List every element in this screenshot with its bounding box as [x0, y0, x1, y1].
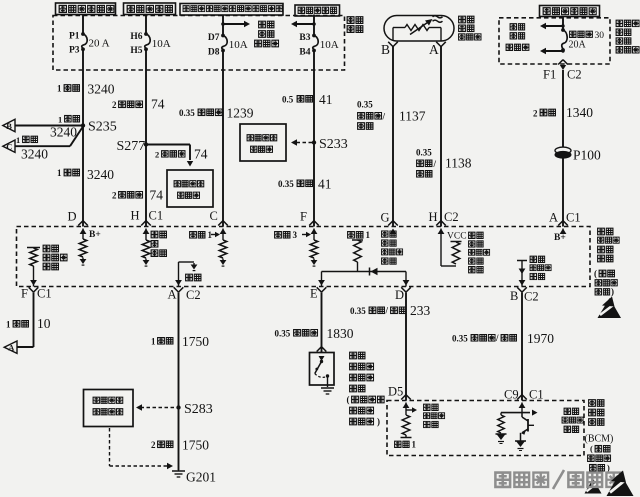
svg-text:): ) — [611, 287, 614, 297]
wire: feed 1 into fuse block — [82, 15, 84, 35]
label: parking brake indicator switch — [350, 352, 357, 359]
svg-text:): ) — [607, 463, 610, 473]
svg-text:/: / — [433, 159, 437, 169]
svg-text:): ) — [377, 417, 380, 427]
BCM internal pull resistor — [500, 413, 502, 415]
svg-text:C2: C2 — [524, 290, 539, 304]
fuse box (top) dashed enclosure — [53, 16, 345, 71]
svg-text:(: ( — [590, 444, 593, 454]
splice S233 with dashed branch — [312, 140, 316, 144]
module internal: pin G ambient light sensor input label — [390, 229, 397, 235]
svg-text:0.35: 0.35 — [275, 329, 291, 339]
label: wiring system power distribution (between fuses) — [259, 21, 266, 28]
svg-text:1970: 1970 — [527, 331, 554, 346]
svg-text:20 A: 20 A — [89, 37, 110, 49]
svg-text:H5: H5 — [130, 46, 142, 56]
wire: 0.35 orange/black 233 — [405, 293, 407, 401]
wire: feed 3 into fuse block — [222, 15, 224, 36]
svg-text:0.35: 0.35 — [350, 306, 366, 316]
svg-text:41: 41 — [318, 177, 332, 192]
svg-text:D5: D5 — [388, 385, 403, 399]
svg-text:/: / — [385, 306, 389, 316]
svg-text:0.35: 0.35 — [357, 100, 373, 110]
underhood junction box dashed enclosure (top right) — [499, 18, 610, 64]
svg-text:1750: 1750 — [182, 438, 209, 453]
svg-text:E: E — [310, 287, 318, 301]
label: auto headlamp connect (BCM) — [564, 408, 570, 414]
wire from triangle B to S235 — [15, 125, 83, 127]
svg-text:1: 1 — [16, 135, 20, 145]
svg-text:1239: 1239 — [227, 106, 254, 121]
svg-text:3240: 3240 — [88, 82, 115, 97]
svg-text:S233: S233 — [319, 137, 348, 152]
svg-text:P3: P3 — [69, 46, 80, 56]
svg-text:C2: C2 — [186, 288, 201, 302]
svg-text:3240: 3240 — [87, 167, 114, 182]
transistor Q1 (output driver) — [521, 413, 523, 417]
ambient light sensor body — [384, 16, 454, 42]
label: ambient light sensor (right) — [459, 16, 466, 23]
svg-text:A: A — [168, 288, 177, 302]
svg-text:B3: B3 — [299, 33, 310, 43]
box: wiring system power distribution (mid right) — [240, 124, 286, 161]
svg-text:G: G — [381, 211, 390, 225]
svg-text:P1: P1 — [69, 31, 80, 41]
splice S235 — [81, 123, 85, 127]
dashed branch ground distribution to G201 — [109, 428, 111, 466]
off-page triangle connector B — [3, 119, 15, 131]
svg-text:D: D — [395, 288, 404, 302]
wire: feed 2 into fuse block — [145, 15, 147, 35]
svg-text:1: 1 — [366, 230, 371, 240]
label: auto headlamp control module (solid state) right side — [598, 228, 605, 235]
feed label box: powered at all times (right) — [540, 6, 600, 17]
module bottom pin E — [317, 287, 322, 292]
svg-text:B+: B+ — [89, 230, 101, 240]
wire: 0.35 pink 1239 (D8 down to module pin C) — [222, 51, 224, 227]
svg-text:B+: B+ — [554, 233, 566, 243]
label: parking brake input — [424, 404, 430, 410]
svg-text:74: 74 — [150, 188, 164, 203]
diode on sense bus — [369, 268, 371, 276]
svg-text:C2: C2 — [567, 68, 582, 82]
wire: 0.35 light-blue 1830 — [321, 293, 323, 353]
svg-text:1: 1 — [58, 114, 62, 124]
module bottom pin B/C2 — [517, 287, 522, 292]
svg-text:B: B — [381, 42, 390, 57]
svg-text:C1: C1 — [149, 209, 164, 223]
svg-text:41: 41 — [319, 92, 333, 107]
fuse P1/P3 20A — [81, 32, 85, 36]
svg-text:10: 10 — [37, 316, 51, 331]
svg-text:F: F — [21, 287, 28, 301]
box: wiring system ground distribution — [84, 390, 134, 427]
svg-text:F: F — [300, 210, 307, 224]
arrow to power distribution (lower) — [561, 49, 564, 52]
svg-text:0.35: 0.35 — [416, 148, 432, 158]
ESD warning symbol (BCM) — [585, 479, 602, 494]
svg-text:1: 1 — [6, 320, 11, 330]
module bottom pin F/C1 — [29, 287, 34, 292]
svg-text:2: 2 — [151, 440, 156, 450]
ESD warning symbol overlapping watermark — [607, 473, 634, 497]
switch ground — [321, 387, 334, 389]
feed label box: powered in park — [124, 3, 176, 15]
node: tap on feed 3 with arrow to power distribution — [221, 22, 225, 26]
BCM dashed enclosure — [387, 401, 584, 456]
module internal: ignition 1 input (pin C) — [220, 229, 227, 235]
svg-text:B: B — [6, 121, 12, 131]
module internal: parking brake sense bus pin E to pin D with diode — [321, 272, 323, 287]
svg-text:C1: C1 — [37, 287, 52, 301]
feed label box: powered in run — [295, 5, 340, 16]
module internal: pin D B+ input resistor to ground — [80, 229, 87, 235]
svg-text:1830: 1830 — [327, 326, 354, 341]
svg-text:1: 1 — [57, 84, 62, 94]
svg-text:C: C — [210, 209, 218, 223]
ambient light sensor photo arrow — [410, 22, 429, 35]
wire: feed 4 into fuse block — [313, 15, 315, 36]
module internal: pin A/C1 B+ feed — [560, 229, 567, 235]
svg-text:VCC: VCC — [447, 232, 467, 242]
wire: feed into fuse 30 — [562, 17, 564, 31]
svg-text:2: 2 — [155, 150, 159, 160]
svg-text:74: 74 — [151, 97, 165, 112]
auto headlamp control module dashed enclosure — [17, 227, 591, 287]
svg-text:74: 74 — [194, 147, 208, 162]
svg-text:S283: S283 — [184, 402, 213, 417]
watermark: toutiao author — [495, 473, 510, 487]
module internal: ground leg to pin A/C2 — [178, 262, 180, 287]
svg-text:A: A — [8, 343, 15, 353]
branch from S277 to power distribution box — [146, 144, 190, 146]
wire: 2 orange 1340 — [562, 70, 564, 147]
svg-text:A: A — [549, 211, 558, 225]
connector F1/C2 symbol — [560, 65, 566, 70]
svg-text:3240: 3240 — [50, 125, 77, 140]
svg-text:H: H — [429, 210, 438, 224]
wire: 1 orange 3240 (S235 to module pin D) — [82, 126, 84, 227]
module bottom pin D — [401, 287, 406, 292]
module internal: position lamp input resistor to ground (pin H/C1) — [143, 229, 150, 235]
svg-text:(BCM): (BCM) — [585, 434, 614, 445]
wire: 1 orange 3240 (from P3 to S235) — [82, 49, 84, 125]
svg-text:2: 2 — [112, 191, 117, 201]
svg-text:10A: 10A — [229, 39, 248, 51]
svg-text:/: / — [495, 333, 499, 343]
svg-text:1: 1 — [151, 337, 156, 347]
wire: 0.35 light-green/black 1137 (sensor B to module pin G) — [392, 46, 394, 227]
svg-text:30: 30 — [595, 31, 605, 41]
label: fuse box (right of enclosure) — [347, 17, 354, 24]
label: underhood accessory wiring junction box — [616, 20, 623, 26]
svg-text:G201: G201 — [186, 470, 216, 485]
svg-text:0.35: 0.35 — [179, 108, 195, 118]
svg-text:B4: B4 — [299, 48, 310, 58]
module internal: auto headlamp control output (to pin F/C1) — [27, 247, 40, 249]
svg-text:20A: 20A — [569, 40, 587, 51]
box: wiring system power distribution (below S277) — [167, 170, 213, 207]
svg-text:0.5: 0.5 — [282, 95, 294, 105]
svg-text:P100: P100 — [573, 148, 601, 163]
sensor pin B connector — [388, 42, 393, 47]
module internal: auto headlamp connect output (to pin B/C2) — [517, 260, 527, 262]
svg-text:3: 3 — [293, 230, 298, 240]
label: body control module BCM right side — [589, 400, 596, 407]
sensor pin A connector — [436, 42, 441, 47]
module internal: ignition 3 input (pin F) — [311, 229, 318, 235]
wire: 1340 lower to module pin A/C1 — [562, 158, 564, 227]
arrow to power distribution (upper) — [561, 24, 564, 27]
svg-text:(: ( — [594, 269, 597, 279]
wire: 0.35 pink/white 1970 — [521, 293, 523, 401]
wire: 2 light-blue 74 (H5 down) — [145, 49, 147, 226]
svg-text:C: C — [6, 142, 12, 152]
ESD warning symbol (module) — [598, 298, 622, 318]
module internal: VCC reference for sensor (pin H/C2) — [438, 229, 445, 235]
svg-text:1138: 1138 — [445, 156, 472, 171]
svg-text:0.35: 0.35 — [278, 179, 294, 189]
svg-text:A: A — [429, 42, 439, 57]
svg-text:/: / — [382, 111, 386, 121]
wire: brown 41 (B4 down to module pin F) — [313, 51, 315, 227]
svg-text:1: 1 — [57, 168, 62, 178]
node: tap on feed 4 with arrow to power distribution — [312, 22, 316, 26]
fuse D7/D8 10A — [221, 34, 225, 38]
parking brake indicator switch — [317, 347, 322, 352]
svg-text:C1: C1 — [529, 388, 544, 402]
svg-text:2: 2 — [533, 109, 538, 119]
fuse B3/B4 10A — [312, 34, 316, 38]
svg-text:H: H — [131, 209, 140, 223]
off-page triangle connector A — [4, 341, 17, 353]
svg-text:233: 233 — [410, 303, 431, 318]
dashed branch S283 to ground distribution box — [141, 407, 174, 409]
svg-text:S277: S277 — [117, 139, 146, 154]
wire from triangle C joining S235 — [15, 145, 70, 147]
svg-text:(: ( — [347, 395, 350, 405]
ambient light sensor internal circuit — [392, 28, 394, 42]
fuse 30 20A — [561, 28, 565, 32]
svg-text:F1: F1 — [543, 68, 556, 82]
svg-text:1137: 1137 — [399, 109, 426, 124]
module internal: ignition 1 pullup (middle) — [348, 232, 355, 239]
module bottom pin A/C2 — [174, 287, 179, 292]
svg-text:H6: H6 — [130, 32, 142, 42]
fuse H6/H5 10A — [144, 32, 148, 36]
BCM internal: parking brake input resistor to ignition 1 — [403, 403, 410, 409]
svg-text:1340: 1340 — [566, 105, 593, 120]
wire: 1 yellow 10 to triangle A — [33, 293, 35, 348]
svg-text:C9: C9 — [504, 388, 519, 402]
grommet P100 — [555, 147, 571, 154]
svg-text:D: D — [68, 210, 77, 224]
splice S277 — [144, 142, 148, 146]
svg-text:10A: 10A — [152, 38, 171, 50]
svg-text:C2: C2 — [444, 210, 459, 224]
splice S283 — [176, 405, 180, 409]
svg-text:C1: C1 — [566, 211, 581, 225]
svg-text:D8: D8 — [208, 48, 220, 58]
feed label box: powered at all times — [56, 3, 116, 15]
svg-text:3240: 3240 — [21, 147, 48, 162]
BCM internal: auto headlamp connect transistor driver — [519, 403, 526, 409]
svg-text:10A: 10A — [320, 39, 339, 51]
wire: 1 black 1750 — [178, 293, 180, 471]
svg-text:B: B — [510, 289, 518, 303]
feed label box: powered in run, bulb test or start — [180, 4, 283, 16]
svg-text:0.35: 0.35 — [452, 334, 468, 344]
off-page triangle connector C — [3, 140, 15, 152]
svg-text:D7: D7 — [208, 33, 220, 43]
svg-text:S235: S235 — [88, 120, 117, 135]
ground G201 — [178, 470, 180, 471]
svg-text:1750: 1750 — [182, 334, 209, 349]
label: wiring system power distribution (top right) — [510, 24, 516, 30]
svg-text:1: 1 — [412, 440, 417, 450]
wire: 0.35 yellow/black 1138 (sensor A to module pin H/C2) — [440, 46, 442, 227]
svg-text:2: 2 — [112, 100, 117, 110]
